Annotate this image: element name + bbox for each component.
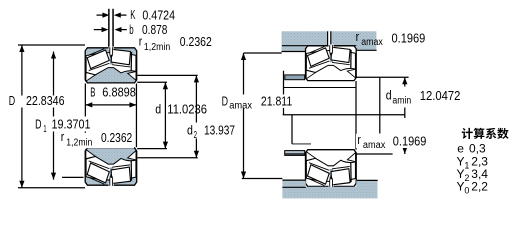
left extension vertical lower [291,115,293,144]
label D1 19.3701 [33,117,92,132]
d extension line top [137,81,167,83]
svg-text:19.3701: 19.3701 [52,118,91,132]
d dimension line [164,82,166,148]
svg-text:D: D [9,94,15,108]
B box left extension line [84,84,86,148]
B box right extension line [135,84,137,148]
bearing right edge extension (right figure) [355,81,357,150]
svg-text:1,2min: 1,2min [66,137,92,148]
svg-text:D: D [222,94,228,108]
svg-text:1: 1 [43,124,46,135]
svg-text:2,2: 2,2 [471,179,488,193]
svg-text:21.811: 21.811 [261,94,292,108]
svg-text:d: d [155,103,161,117]
dimension D line [21,45,23,188]
svg-text:B: B [90,86,95,100]
dimension D extension line bottom [18,187,85,189]
shaft section bottom band [282,181,377,199]
Damax extension line top [244,52,282,54]
svg-text:0.878: 0.878 [142,23,167,37]
bearing cross-section upper half (left figure) [85,47,137,83]
svg-text:r: r [357,133,361,147]
upper da level line [284,87,356,89]
svg-text:0.2362: 0.2362 [101,131,132,145]
svg-text:0.1969: 0.1969 [392,31,426,45]
dimension D1 line [53,52,55,180]
bearing cross-section lower half (left figure) [85,148,137,187]
svg-text:r: r [61,130,64,144]
table header 计算系数 [462,128,473,139]
Damax extension line bottom [242,178,283,180]
Damax dimension line [243,53,245,179]
shaft shoulder stub (upper) [285,75,305,80]
svg-text:amax: amax [229,100,252,111]
svg-text:amin: amin [392,95,411,106]
svg-text:K: K [130,8,136,22]
housing section top band [282,31,377,51]
svg-text:amax: amax [361,37,382,48]
svg-text:d: d [187,124,193,138]
svg-text:D: D [35,118,41,132]
svg-text:0.1969: 0.1969 [393,135,427,149]
bearing cross-section lower half (right figure) [306,150,357,188]
dimension D1 extension line bottom [62,176,84,178]
label B 6.8898 [88,88,136,100]
b dimension line with arrows [94,29,103,31]
B dimension line [85,104,136,106]
d2 extension line bottom [138,157,198,159]
label damin 12.0472 [384,87,462,108]
svg-text:2: 2 [464,173,469,183]
dimension D extension line top [18,44,85,46]
K dimension line with arrows [97,14,104,16]
label r1,2min 0.2362 (bottom) [58,133,134,148]
lubrication hole line right [112,9,114,48]
svg-text:b: b [129,23,133,37]
svg-text:r: r [356,30,360,44]
svg-text:6.8898: 6.8898 [102,86,136,100]
svg-text:d: d [386,89,392,103]
svg-text:12.0472: 12.0472 [420,89,461,103]
svg-text:0.4724: 0.4724 [142,8,175,22]
svg-text:0.2362: 0.2362 [180,35,212,49]
damin dimension line [404,77,406,118]
svg-text:2: 2 [194,130,198,141]
bearing cross-section upper half (right figure) [306,45,357,81]
damin extension line bottom [285,153,393,155]
lower da extension line [292,143,311,145]
svg-text:13.937: 13.937 [204,124,235,138]
da level line right of bearing [356,76,408,78]
svg-text:11.0236: 11.0236 [167,103,207,117]
label d2 13.937 [186,123,199,139]
d extension line bottom [137,148,167,150]
svg-text:1,2min: 1,2min [144,42,170,53]
shaft shoulder stub (lower) [285,151,305,156]
svg-text:0: 0 [464,185,469,195]
left extension vertical upper [283,71,285,115]
shaft shoulder step lower-left [282,180,305,187]
da vertical line [379,77,381,133]
d2 dimension line [195,75,197,157]
lubrication hole line left [108,9,110,48]
svg-text:1: 1 [464,160,469,170]
svg-text:22.8346: 22.8346 [26,94,65,108]
svg-text:r: r [139,35,143,49]
d2 extension line top [138,74,198,76]
shaft axis line [283,114,405,116]
label D 22.8346 [3,96,63,108]
svg-text:amax: amax [363,140,386,151]
label ramax 0.1969 (bottom) [356,134,428,148]
svg-text:Y: Y [457,179,465,193]
housing lubrication hole [327,31,331,45]
label Damax 21.811 [219,95,294,109]
